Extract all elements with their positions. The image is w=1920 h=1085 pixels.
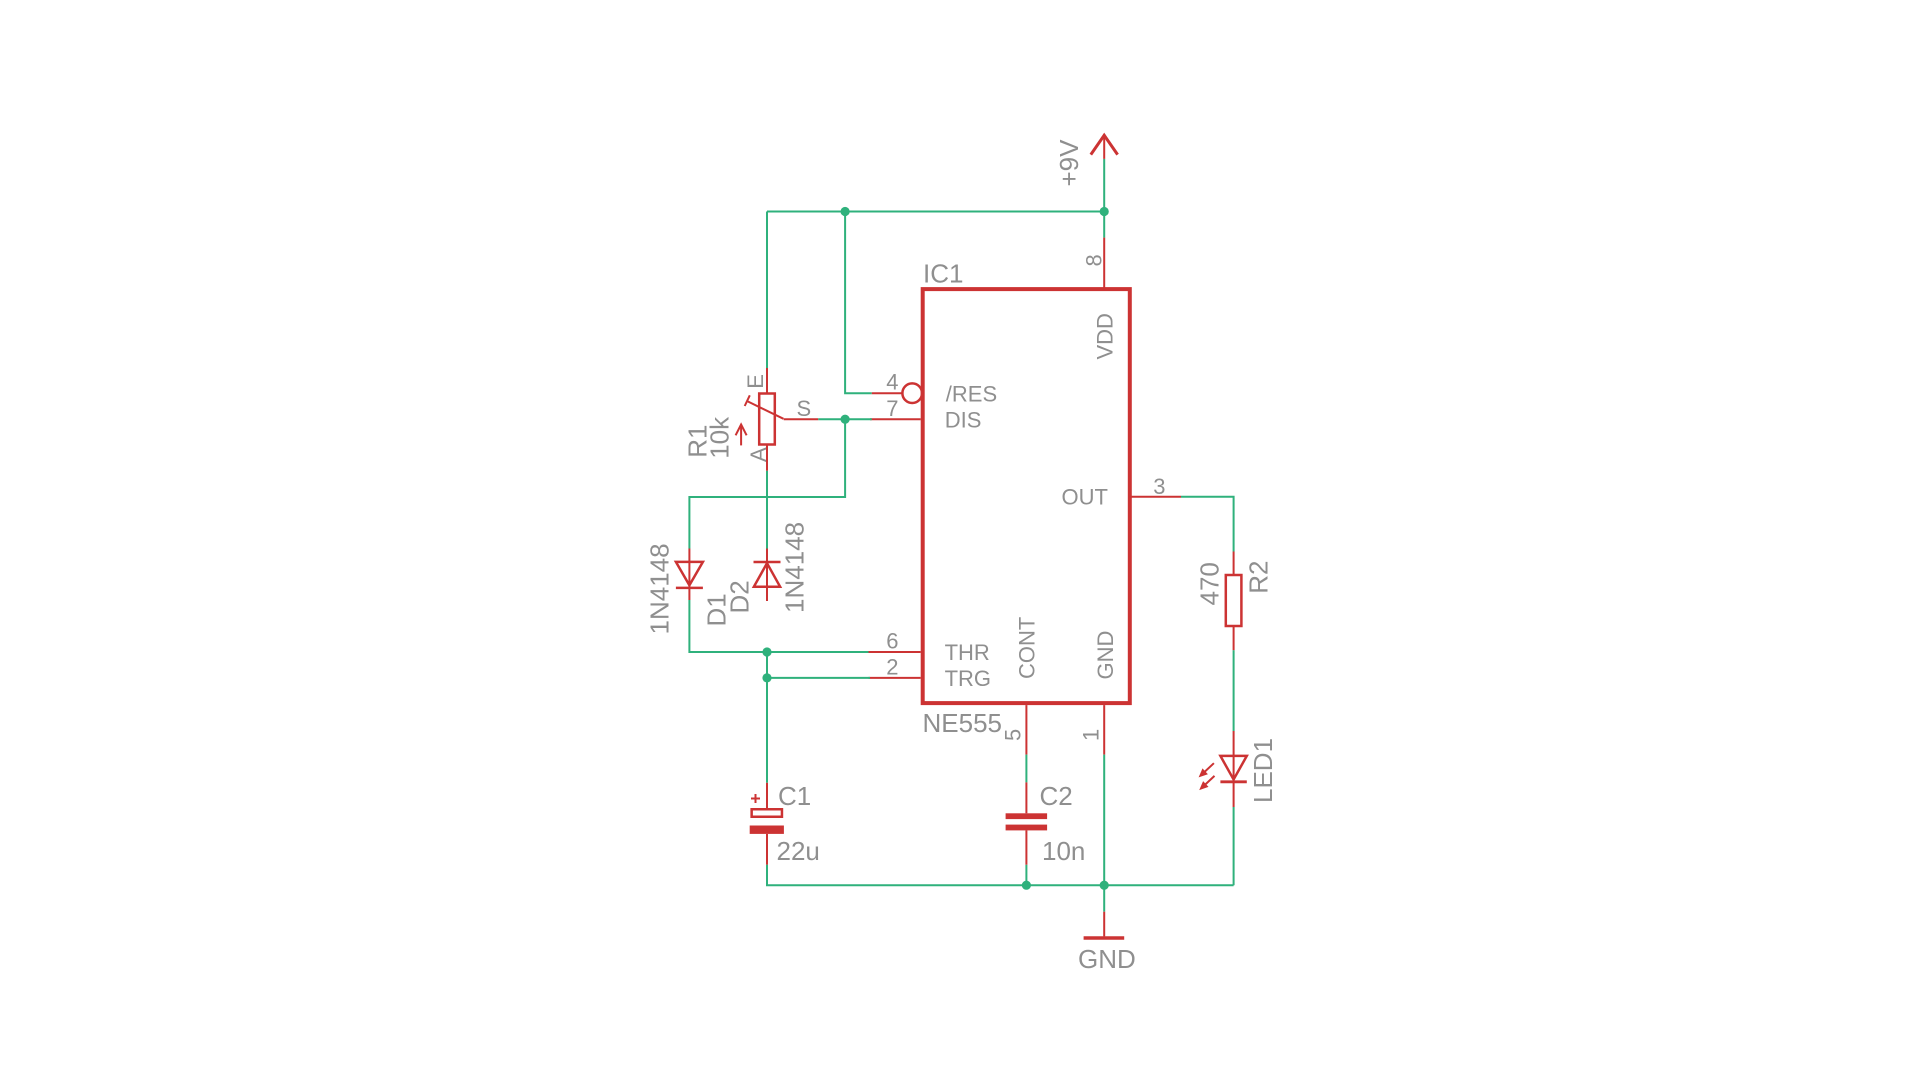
pin 4 /RES stub with bubble <box>872 392 902 394</box>
D2 triangle (anode bottom) <box>754 563 780 587</box>
resistor R2 <box>1226 552 1242 651</box>
R1 wiper horizontal pin S <box>784 418 819 420</box>
ground symbol <box>1084 912 1125 938</box>
svg-text:D2: D2 <box>725 580 755 613</box>
wire THR junction to pin 6 <box>767 651 869 653</box>
R1 adjust arrow <box>740 425 742 446</box>
pin 6 THR stub <box>869 651 921 653</box>
wire drop to /RES pin 4 <box>845 212 872 394</box>
LED1 triangle <box>1220 756 1246 780</box>
svg-text:C1: C1 <box>778 781 811 811</box>
wire THR to TRG <box>766 652 768 678</box>
wire D1 bottom to THR junction <box>689 600 767 652</box>
C2 bottom pin <box>1025 830 1027 864</box>
wire C2 to bottom rail <box>1025 865 1027 885</box>
R2 body <box>1226 575 1242 626</box>
svg-text:C2: C2 <box>1040 781 1073 811</box>
C1 top pin <box>766 783 768 808</box>
junction S wire <box>841 415 850 424</box>
LED1 pin through <box>1233 731 1235 807</box>
wire S-junction down-left to D1 <box>689 419 845 548</box>
svg-text:10n: 10n <box>1042 836 1085 866</box>
capacitor C1 (polarized) <box>750 783 784 865</box>
D2 cathode bar (top) <box>754 561 781 564</box>
svg-text:A: A <box>746 447 771 462</box>
R1 bottom pin A <box>766 445 768 471</box>
pin 3 OUT stub <box>1130 496 1181 498</box>
svg-text:4: 4 <box>886 370 898 395</box>
diode D1 <box>676 549 703 601</box>
wire pin8 to top <box>1103 212 1105 238</box>
svg-text:LED1: LED1 <box>1248 738 1278 803</box>
wire TRG junction to pin 2 <box>767 677 870 679</box>
wire LED1 to bottom rail <box>1233 807 1235 885</box>
junction TRG <box>762 673 771 682</box>
C2 bottom plate <box>1006 825 1048 831</box>
wire S to pin7 <box>818 418 872 420</box>
svg-text:7: 7 <box>886 396 898 421</box>
svg-text:VDD: VDD <box>1093 313 1118 359</box>
wire pin5 to C2 <box>1025 755 1027 783</box>
C1 plus sign <box>751 798 760 800</box>
LED1 emission arrow 1 <box>1204 763 1214 773</box>
wire GND stub <box>1103 885 1105 912</box>
svg-text:1: 1 <box>1078 729 1103 741</box>
capacitor C2 <box>1006 782 1048 864</box>
C2 top plate <box>1006 813 1048 819</box>
LED1 emission arrow 2 <box>1204 776 1214 786</box>
C2 top pin <box>1025 782 1027 813</box>
R1 body <box>759 394 775 445</box>
C1 bottom pin <box>766 834 768 865</box>
pin 5 CONT stub <box>1025 705 1027 755</box>
wire left drop to R1.E <box>766 212 768 369</box>
svg-text:3: 3 <box>1153 474 1165 499</box>
junction GND <box>1100 881 1109 890</box>
wire pin3 OUT to R2 <box>1181 497 1234 552</box>
pin 8 VDD stub <box>1103 238 1105 290</box>
svg-text:NE555: NE555 <box>923 708 1003 738</box>
diode D2 <box>754 549 781 602</box>
svg-text:470: 470 <box>1194 562 1224 605</box>
wire R2 to LED1 <box>1233 650 1235 731</box>
R1 wiper T-bar <box>745 395 750 406</box>
trimmer R1 <box>736 368 819 471</box>
C1 top plate (hollow) <box>752 809 782 817</box>
svg-text:TRG: TRG <box>945 666 991 691</box>
supply symbol +9V arrow <box>1091 134 1118 159</box>
svg-text:E: E <box>743 374 768 389</box>
R1 top pin E <box>766 368 768 393</box>
svg-text:R2: R2 <box>1244 561 1274 594</box>
wire pin1 down to bottom rail <box>1103 755 1105 886</box>
wire TRG down to C1 <box>766 678 768 783</box>
D2 pin through <box>766 549 768 602</box>
svg-text:5: 5 <box>1001 729 1026 741</box>
svg-text:6: 6 <box>886 628 898 653</box>
svg-text:1N4148: 1N4148 <box>645 543 675 634</box>
svg-text:S: S <box>797 396 812 421</box>
pin 1 GND stub <box>1103 705 1105 755</box>
svg-text:CONT: CONT <box>1015 617 1040 679</box>
junction top wire / +9V <box>1100 207 1109 216</box>
wire +9V stub <box>1103 159 1105 212</box>
wire bottom rail <box>767 865 1234 885</box>
svg-text:GND: GND <box>1078 944 1136 974</box>
svg-text:+9V: +9V <box>1054 139 1084 187</box>
svg-text:GND: GND <box>1093 631 1118 680</box>
svg-text:/RES: /RES <box>946 382 997 407</box>
wire R1.A to D2 <box>766 471 768 549</box>
D1 pin through <box>688 549 690 601</box>
junction THR <box>762 647 771 656</box>
LED LED1 <box>1199 731 1247 807</box>
wire VCC top horizontal <box>767 211 1104 213</box>
svg-text:22u: 22u <box>777 836 820 866</box>
svg-text:THR: THR <box>945 640 990 665</box>
pin 2 TRG stub <box>869 677 921 679</box>
pin 7 DIS stub <box>870 418 921 420</box>
svg-text:IC1: IC1 <box>923 259 963 289</box>
C1 bottom plate (filled) <box>750 826 784 834</box>
D1 cathode bar <box>676 587 703 590</box>
D1 triangle (anode top) <box>676 562 703 585</box>
junction C2 bottom <box>1022 881 1031 890</box>
R2 bottom pin <box>1233 626 1235 650</box>
op-amp IC1 NE555 box <box>923 289 1130 703</box>
R1 wiper diagonal <box>748 401 784 418</box>
svg-text:DIS: DIS <box>945 407 982 432</box>
R2 top pin <box>1233 552 1235 576</box>
svg-text:OUT: OUT <box>1062 484 1108 509</box>
svg-text:10k: 10k <box>705 416 735 459</box>
LED1 cathode bar <box>1220 780 1246 783</box>
junction top wire / pin4 branch <box>841 207 850 216</box>
svg-text:1N4148: 1N4148 <box>780 522 810 613</box>
svg-text:8: 8 <box>1082 254 1107 266</box>
svg-text:2: 2 <box>886 654 898 679</box>
